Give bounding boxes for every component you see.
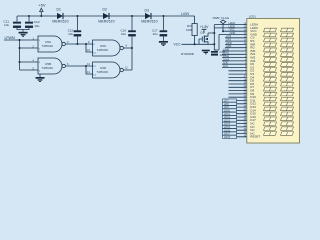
pin numbers U5A/U5B inputs [33,36,35,70]
ground under U5B [36,74,45,82]
svg-text:PWR_FLAG: PWR_FLAG [213,16,230,20]
svg-text:D2: D2 [103,7,107,11]
wire LPWM [4,39,38,41]
connector pin names [250,23,260,139]
power flag PWR_FLAG [213,16,230,31]
nand gate U5B [38,58,65,74]
wire U5A out to U5C [65,44,92,52]
svg-text:10u: 10u [34,24,39,28]
svg-text:MBR0520: MBR0520 [98,20,114,24]
svg-text:D3: D3 [145,8,149,12]
svg-text:LD1: LD1 [223,64,228,68]
svg-text:+5V: +5V [38,3,46,8]
wire top rail [17,15,195,17]
svg-text:74HC00: 74HC00 [42,44,54,48]
diode D1 [52,7,68,23]
svg-text:MBR0520: MBR0520 [141,20,157,24]
svg-text:Q2: Q2 [200,30,204,34]
power +1.8V [200,25,209,33]
power +5V [38,3,46,16]
nand gate U5C [93,40,124,56]
capacitor C17 [152,16,167,41]
svg-text:LRST: LRST [224,136,231,139]
LCD segment cells [264,28,294,135]
nand gate U5A [38,36,65,52]
connector pin numbers [244,23,247,137]
svg-text:LIGN: LIGN [181,12,189,16]
wires to connector data pins [222,47,247,136]
capacitor C10 [25,16,40,30]
svg-text:74HC00: 74HC00 [42,66,54,70]
node rail junctions [28,15,164,17]
svg-text:+1.8V: +1.8V [200,25,209,29]
diode D3 [141,8,157,23]
wire LPWM riser [20,40,39,70]
diode D2 [98,7,114,23]
wire Q2 to LED pins riser [208,25,247,50]
wires to connector pins CS RS WR RD [225,21,247,48]
node LPWM junctions [19,39,21,63]
transistor Q2 [199,30,208,44]
svg-text:10u: 10u [153,32,158,36]
ground under C17 [159,41,168,46]
ground under Q2 [202,50,210,55]
svg-text:RESET: RESET [250,135,260,139]
wire caps to ground [17,30,29,32]
svg-text:VCC: VCC [174,43,182,47]
svg-text:D1: D1 [57,7,61,11]
wire U5D out riser [123,48,132,70]
nand gate U5D [93,62,124,78]
svg-text:10u: 10u [121,32,126,36]
wire U5B out to U5D [65,66,92,74]
capacitor C16 [121,16,136,48]
resistor R31 [186,16,197,44]
capacitor C18 [211,50,226,57]
wire VCC [182,43,215,45]
ground (decoupling caps) [19,32,28,37]
capacitor C11 [4,16,22,30]
svg-text:74HC00: 74HC00 [97,48,109,52]
svg-text:LPWM: LPWM [5,36,15,40]
capacitor C12 [68,16,82,44]
wire U5C out to C16 node [123,47,132,49]
global labels LD7-LD17 LRST [223,99,237,139]
svg-text:RY8040D: RY8040D [181,52,195,56]
svg-text:10u: 10u [68,32,73,36]
svg-text:100k: 100k [186,28,193,32]
svg-text:MBR0520: MBR0520 [52,20,68,24]
svg-text:10u: 10u [4,23,9,27]
svg-text:74HC00: 74HC00 [97,70,109,74]
LCD module connector [247,15,300,143]
